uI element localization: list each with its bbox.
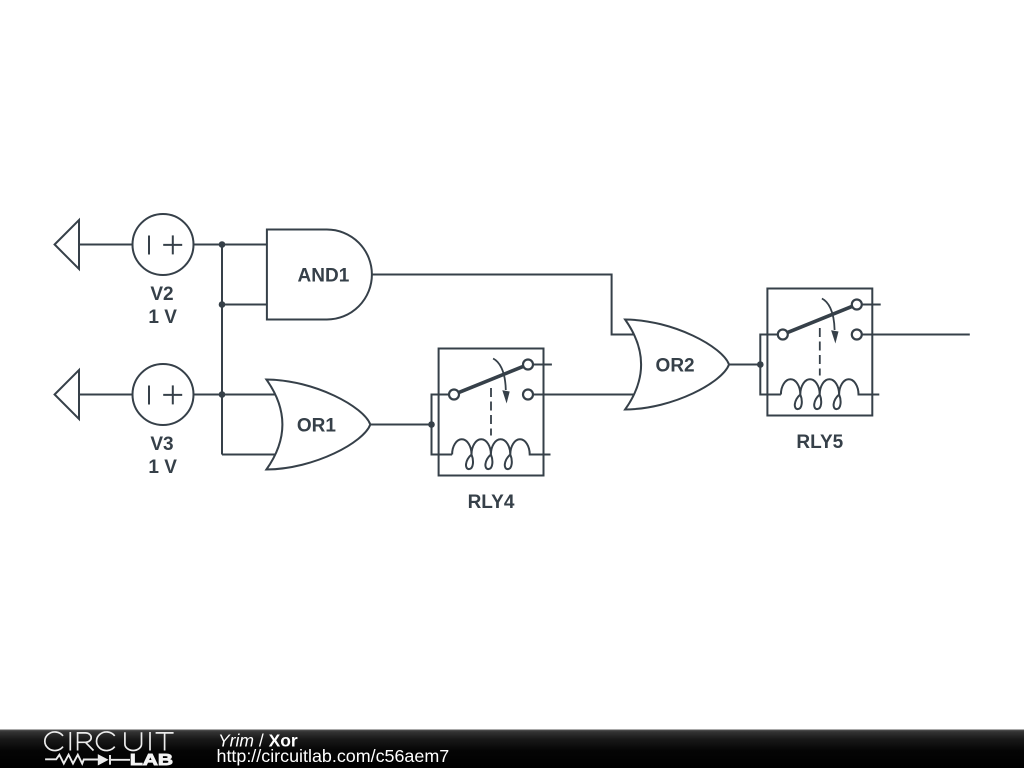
wire (194, 244, 223, 246)
net flag (node of V3) (55, 370, 79, 419)
or-gate OR1 (266, 380, 370, 470)
svg-text:AND1: AND1 (298, 266, 350, 287)
svg-text:RLY5: RLY5 (796, 432, 843, 453)
wire (194, 394, 223, 396)
wire (79, 394, 133, 396)
footer bar (0, 730, 1024, 768)
relay RLY4 (432, 349, 552, 476)
junction (428, 421, 435, 428)
wire (222, 454, 276, 456)
svg-text:V2: V2 (150, 284, 173, 305)
wire (729, 364, 760, 366)
net flag (node of V2) (55, 220, 79, 269)
relay RLY5 (760, 289, 880, 416)
junction (219, 241, 226, 248)
wire (222, 394, 276, 396)
and-gate AND1 (267, 230, 372, 320)
junction (757, 361, 764, 368)
wire (vertical rail) (221, 245, 223, 455)
wire (370, 424, 431, 426)
svg-text:V3: V3 (150, 434, 173, 455)
voltage source V3 (133, 364, 194, 425)
svg-text:OR2: OR2 (656, 356, 695, 377)
svg-text:http://circuitlab.com/c56aem7: http://circuitlab.com/c56aem7 (217, 746, 450, 766)
svg-text:LAB: LAB (130, 752, 173, 768)
voltage source V2 (133, 214, 194, 275)
svg-text:1 V: 1 V (148, 307, 177, 328)
wire (222, 244, 267, 246)
logo schematic squiggle (resistor + diode) (45, 755, 130, 765)
wire (372, 275, 640, 335)
wire (79, 244, 133, 246)
wire (222, 304, 267, 306)
svg-text:OR1: OR1 (297, 416, 337, 437)
wire (533, 394, 640, 396)
wire (861, 334, 969, 336)
or-gate OR2 (625, 320, 729, 410)
CircuitLab logo wordmark CIRCUIT (drawn strokes) (45, 732, 174, 751)
svg-text:RLY4: RLY4 (468, 492, 515, 513)
junction (219, 391, 226, 398)
svg-text:1 V: 1 V (148, 457, 177, 478)
junction (219, 301, 226, 308)
